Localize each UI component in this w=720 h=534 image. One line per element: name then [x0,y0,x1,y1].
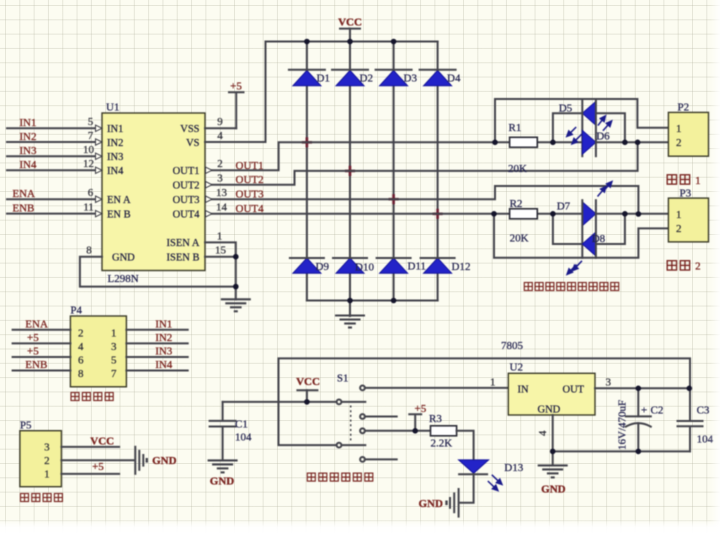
wire GND pin8 [80,257,236,287]
wire P4 pin8 [13,370,71,372]
wire P5 pin2 GND [61,459,134,461]
svg-text:3: 3 [44,441,50,453]
switch throw 2b [360,457,397,462]
diode D9 [290,258,330,273]
svg-text:ENB: ENB [25,359,47,371]
wire P5 pin3 VCC [61,446,119,448]
wire output bottom rail [553,450,690,452]
ground sideways P5 [135,447,147,474]
net labels left of U1 [12,117,37,214]
resistor R3 [429,413,457,449]
svg-text:6: 6 [88,187,94,199]
junction cross OUT2-D2 [345,166,355,176]
junction D3 top bus [391,39,397,45]
diode D13 LED [459,460,524,474]
junction U2 out C2 [636,386,642,392]
junction cross OUT4-D4 [433,209,443,219]
svg-text:5: 5 [88,116,94,128]
svg-text:GND: GND [210,475,235,487]
svg-text:VSS: VSS [180,124,199,135]
svg-text:VCC: VCC [90,435,114,447]
svg-text:IN3: IN3 [19,145,37,157]
junction dot ISEN B [233,254,239,260]
svg-text:3: 3 [217,173,223,185]
diode D12 [421,258,471,273]
wire GND stem [349,301,351,317]
wire P4 pin4 [13,342,71,344]
SECTION: motor indicator networks [491,99,708,291]
svg-text:R3: R3 [429,413,442,425]
net labels P4 left [25,318,48,371]
SECTION: power section [208,340,714,517]
net labels P4 right [155,318,173,371]
arrows D7 emission [598,182,612,197]
svg-text:VCC: VCC [338,17,362,29]
svg-text:P3: P3 [680,188,692,200]
switch pole 1 [337,400,366,405]
diode D11 [377,258,426,273]
svg-text:+5: +5 [230,81,242,93]
wire R3 to D13 [457,431,474,460]
pin names U1 right [167,124,201,264]
wire motor2 bottom rail to P3 pin2 [494,214,668,258]
svg-text:+: + [641,405,647,417]
junction node R2-D7D8 [550,211,556,217]
wire ISEN A pin1 [205,242,236,299]
diode D5 [559,100,596,156]
edge fade right [710,0,720,534]
svg-text:+5: +5 [415,403,427,415]
wire P4 pin6 [13,356,71,358]
wire D2 column [349,42,351,301]
wire U2 gnd pin4 [552,415,554,451]
svg-text:13: 13 [216,187,228,199]
switch throw 1b [360,414,397,419]
switch link dotted [350,406,352,442]
svg-text:4: 4 [78,341,84,353]
wire R1 row [495,141,668,143]
label motor1 [667,175,700,187]
svg-text:ENA: ENA [12,188,35,200]
junction OUT4 rail R2 [491,211,497,217]
switch pole 2 [337,443,366,448]
svg-text:D10: D10 [355,262,374,274]
resistor R1 [508,122,537,175]
svg-text:D11: D11 [408,261,427,273]
svg-text:D7: D7 [557,201,571,213]
diode D6 [582,100,610,156]
net labels OUT right of pins [236,160,265,215]
wire ENA [7,196,102,202]
wire VS pin4 [205,141,266,143]
junction dot +5 R3 [412,428,418,434]
svg-text:ISEN A: ISEN A [167,238,200,249]
svg-text:IN1: IN1 [155,318,172,330]
svg-text:4: 4 [217,130,223,142]
svg-text:OUT3: OUT3 [236,188,265,200]
svg-text:IN3: IN3 [155,346,173,358]
wire ENB [7,210,102,216]
svg-text:P4: P4 [70,305,82,317]
diode D1 [289,70,330,86]
wire P4 pin2 [13,329,71,331]
svg-text:12: 12 [83,158,94,170]
svg-text:IN: IN [518,384,529,395]
ground sideways D13 [447,489,459,517]
svg-text:D3: D3 [404,73,418,85]
wire OUT1 pin2 [206,142,496,173]
svg-text:P5: P5 [20,419,32,431]
svg-text:S1: S1 [337,372,349,384]
label P4 caption [71,393,113,401]
svg-text:2: 2 [44,455,50,467]
svg-text:D9: D9 [316,261,330,273]
junction cross OUT3-D3 [389,194,399,204]
SECTION: top flyback diode network [266,17,471,328]
ground earth below U2 [538,451,568,477]
svg-text:R1: R1 [509,122,522,134]
wire P4 pin3 [126,342,187,344]
svg-text:15: 15 [215,245,227,257]
svg-text:GND: GND [152,455,177,467]
svg-text:U1: U1 [106,102,119,114]
svg-text:D5: D5 [559,103,573,115]
connector P2 [668,102,708,157]
wire IN1 [7,125,102,131]
svg-text:GND: GND [538,404,561,415]
svg-text:IN2: IN2 [19,131,36,143]
IC U2 7805 [501,340,595,415]
svg-text:R2: R2 [510,198,523,210]
svg-text:1: 1 [676,123,682,135]
ground earth below ISEN [221,299,251,311]
svg-text:2: 2 [695,261,701,273]
svg-text:+5: +5 [27,332,39,344]
svg-text:D2: D2 [360,73,373,85]
wire motor1 top rail to P2 pin1 [495,99,668,142]
svg-text:D6: D6 [596,131,610,143]
junction D10 bottom bus [347,298,353,304]
diode D8 [582,200,605,258]
junction D11 bottom bus [391,298,397,304]
svg-text:2: 2 [78,328,84,340]
edge fade bottom [0,519,720,534]
junction P2 pin2 node [635,140,641,146]
wire IN3 [7,153,102,159]
junction D1 top bus [304,39,310,45]
svg-text:IN4: IN4 [19,159,37,171]
wire VCC row to switch [223,401,337,403]
svg-text:D1: D1 [317,73,330,85]
capacitor C3 [678,388,714,451]
svg-text:1: 1 [676,209,682,221]
svg-text:7: 7 [111,368,117,380]
wire P4 pin5 [126,356,187,358]
junction dot GND rail [233,284,239,290]
wire P4 pin7 [126,370,187,372]
svg-text:7: 7 [88,130,94,142]
svg-text:20K: 20K [508,163,527,175]
junction C2 gnd rail [636,449,642,455]
svg-text:1: 1 [111,328,117,340]
connector P3 [668,188,708,242]
svg-text:GND: GND [419,498,444,510]
svg-text:11: 11 [83,202,94,214]
diode D2 [332,70,373,86]
junction P3 pin1 node [636,211,642,217]
svg-text:OUT2: OUT2 [236,174,264,186]
svg-text:9: 9 [217,116,223,128]
svg-text:C3: C3 [697,404,710,416]
wire IN2 [7,139,102,145]
wire D4 column [437,42,439,301]
svg-text:10: 10 [83,144,95,156]
power VCC switch [296,376,320,402]
SECTION: U1 chip [7,81,638,312]
svg-text:IN1: IN1 [19,117,36,129]
wire top VCC bus [266,41,438,43]
svg-text:20K: 20K [510,233,529,245]
wire D3 column [393,42,395,301]
svg-text:ENA: ENA [25,318,48,330]
svg-text:6: 6 [78,355,84,367]
svg-text:D8: D8 [592,233,606,245]
wire bottom GND bus [307,300,438,302]
svg-text:C2: C2 [651,405,664,417]
wire VSS pin9 [205,127,236,129]
wire P4 pin1 [126,329,187,331]
svg-text:3: 3 [606,377,612,389]
svg-text:OUT2: OUT2 [173,180,200,191]
junction OUT1 rail R1 [492,140,498,146]
diode D10 [333,258,374,274]
wire +5 output rail [279,358,691,445]
svg-text:5: 5 [111,355,117,367]
switch throw 2a [360,428,430,433]
label indicator caption [524,283,618,291]
svg-text:IN2: IN2 [107,138,123,149]
arrows D6 emission [598,116,612,131]
svg-text:VS: VS [186,138,200,149]
wire IN4 [7,167,102,173]
wire R2 row [537,213,668,215]
svg-text:IN4: IN4 [107,166,124,177]
svg-text:2.2K: 2.2K [431,437,453,449]
svg-text:IN3: IN3 [107,152,123,163]
svg-text:8: 8 [86,245,92,257]
svg-text:ISEN B: ISEN B [167,253,200,264]
svg-text:OUT4: OUT4 [173,209,201,220]
junction VCC stem [347,39,353,45]
svg-text:4: 4 [537,430,549,436]
svg-text:1: 1 [44,468,50,480]
junction dot VCC [304,399,310,405]
connector P4 [70,305,126,387]
svg-text:16V/470uF: 16V/470uF [617,400,629,450]
junction U2 gnd rail [550,449,556,455]
diode D3 [376,70,418,86]
svg-text:D13: D13 [504,462,523,474]
svg-text:D4: D4 [447,73,461,85]
svg-text:+5: +5 [92,461,104,473]
svg-text:2: 2 [217,158,223,170]
label P5 caption [21,494,63,502]
switch throw 1a [360,386,508,391]
svg-text:1: 1 [217,230,223,242]
svg-text:VCC: VCC [296,376,320,388]
ground earth below diode bus [335,316,365,328]
svg-text:EN B: EN B [107,209,131,220]
svg-text:C1: C1 [235,419,248,431]
pin names U1 left [107,124,135,264]
svg-text:2: 2 [676,223,682,235]
svg-text:ENB: ENB [12,202,34,214]
svg-text:L298N: L298N [108,273,139,285]
pin numbers P5 [44,441,50,480]
svg-text:IN1: IN1 [107,124,123,135]
svg-text:1: 1 [490,377,496,389]
wire D13 to GND [459,474,473,503]
svg-text:7805: 7805 [501,340,524,352]
junction cross OUT1-D1 [302,137,312,147]
wire OUT4 pin14 [206,211,510,217]
switch S1 [337,372,509,462]
wire U2 out pin3 [595,387,690,389]
power VCC top [338,17,362,42]
pin numbers P4 [78,328,117,381]
svg-text:1: 1 [695,175,701,187]
svg-text:OUT1: OUT1 [173,166,200,177]
wire OUT2 pin3 [206,142,638,188]
svg-text:P2: P2 [678,102,690,114]
svg-text:3: 3 [111,341,117,353]
svg-text:OUT: OUT [563,384,585,395]
diode D4 [420,70,461,86]
label motor2 [667,261,700,273]
arrows D13 emission [488,475,502,491]
svg-text:OUT3: OUT3 [173,195,200,206]
svg-text:OUT4: OUT4 [236,203,265,215]
connector P5 [20,419,62,486]
resistor R2 [510,198,538,245]
svg-text:GND: GND [541,484,566,496]
svg-text:14: 14 [216,202,228,214]
wire P5 pin1 +5 [61,473,119,475]
svg-text:GND: GND [112,253,135,264]
IC U1 L298N body [102,102,205,286]
diode D7 [557,200,596,258]
junction D8 branch rejoin [622,211,628,217]
ground earth below C1 [208,460,238,472]
capacitor C2 electrolytic [617,388,664,451]
arrows D5 emission [567,127,582,144]
svg-text:104: 104 [235,431,252,443]
power +5 at R3 [409,403,426,431]
junction D5 branch rejoin [622,140,628,146]
power +5 above VSS [229,81,244,129]
arrows D8 emission [567,261,582,275]
junction U2 out C3 rail [687,386,693,392]
wire D8 lower branch [553,214,625,244]
svg-text:IN4: IN4 [155,359,173,371]
capacitor C1 [210,402,252,460]
wire D5 upper branch [553,113,625,142]
svg-text:EN A: EN A [107,195,131,206]
pin numbers U1 left [83,116,95,256]
wire D1 column [306,42,308,301]
svg-text:+5: +5 [27,346,39,358]
SECTION: P4 P5 connectors [13,305,188,502]
label S1 caption [307,473,373,481]
svg-text:8: 8 [78,368,84,380]
wire OUT3 pin13 [206,186,639,214]
pin numbers U1 right [215,116,228,256]
wire VS vertical riser [265,42,267,143]
wire ISEN B pin15 [205,256,236,258]
svg-text:U2: U2 [510,361,523,373]
svg-text:D12: D12 [452,261,471,273]
svg-text:IN2: IN2 [155,332,172,344]
svg-text:OUT1: OUT1 [236,160,264,172]
junction node R1-D5D6 [550,140,556,146]
svg-text:2: 2 [676,137,682,149]
